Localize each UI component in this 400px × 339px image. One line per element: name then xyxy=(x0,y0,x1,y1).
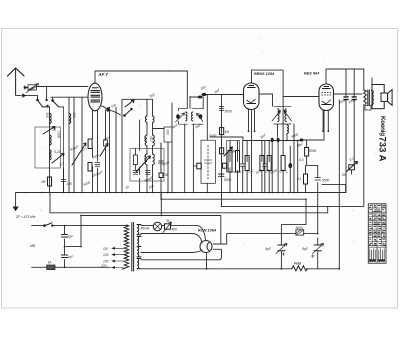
svg-text:5000: 5000 xyxy=(224,178,231,182)
capacitor C10 xyxy=(219,107,223,111)
svg-text:100: 100 xyxy=(67,182,73,186)
antenna input wire xyxy=(16,95,38,99)
trimmer feed line xyxy=(25,87,89,100)
resistor R14 xyxy=(267,156,271,171)
svg-text:5000: 5000 xyxy=(309,149,316,153)
wire x278.1 xyxy=(277,140,279,193)
band switch S1b xyxy=(47,100,59,107)
tube3 anode xyxy=(334,93,363,95)
IF1 top feed xyxy=(190,97,203,109)
IF transformer 1 right unit xyxy=(192,108,204,124)
tube2 filament legs xyxy=(249,110,255,131)
tube RES964 xyxy=(319,84,334,111)
IF transformer 1 left unit xyxy=(176,108,188,124)
tap arrow 220 xyxy=(109,267,124,269)
mains switch xyxy=(44,223,53,227)
grid cap curve tube1 xyxy=(102,106,121,115)
osc coil pair C left xyxy=(145,154,147,165)
wire column x74 xyxy=(73,97,75,192)
wire column x63.5 xyxy=(63,168,65,193)
osc right vertical x167 xyxy=(153,129,169,193)
osc coil pair A right xyxy=(153,116,155,122)
resistor R5 xyxy=(133,149,137,170)
speaker xyxy=(372,85,392,109)
tap arrow 150 xyxy=(112,260,124,262)
tube RENS1254 xyxy=(244,83,260,110)
capacitor C9 grid2 xyxy=(202,93,207,96)
field coil resistor xyxy=(292,266,308,271)
svg-text:5-20: 5-20 xyxy=(54,150,61,154)
tube2 cathode xyxy=(251,110,253,193)
shielded potentiometer box xyxy=(201,140,215,183)
title table xyxy=(368,204,386,263)
resistor R16 xyxy=(305,148,309,157)
resistor R13 xyxy=(260,156,264,171)
resistor R15 xyxy=(281,156,285,171)
capacitor 5000 block xyxy=(296,230,304,235)
volume arrow xyxy=(224,147,233,156)
bus D xyxy=(50,193,328,213)
RF coil L2 xyxy=(50,135,52,145)
wire x354 xyxy=(352,69,355,174)
transformer primary zigzag xyxy=(122,225,129,269)
heater line under rectifier xyxy=(141,249,222,268)
capacitor C18 on x346 xyxy=(343,96,348,100)
osc switch S2 xyxy=(124,108,133,116)
svg-text:5000: 5000 xyxy=(322,179,329,183)
mains bottom line xyxy=(32,266,109,268)
tube3 cathode chain xyxy=(303,110,324,192)
svg-text:300: 300 xyxy=(72,113,76,119)
capacitor C15b dark xyxy=(289,146,291,193)
capacitor C19 on x354 xyxy=(352,96,357,100)
tube1 filament legs xyxy=(93,111,98,193)
svg-text:AF 7: AF 7 xyxy=(98,72,109,77)
resistor R10 xyxy=(228,151,232,173)
svg-text:5000: 5000 xyxy=(225,110,232,114)
capacitor C15 dot xyxy=(277,138,280,142)
HV winding loop top xyxy=(141,234,202,244)
resistor R17 xyxy=(304,174,308,184)
wire node column g1 xyxy=(49,107,51,193)
rectifier output xyxy=(213,234,281,244)
tube3 top loop xyxy=(326,69,372,85)
bottom bus right xyxy=(141,268,339,270)
resistor R1 xyxy=(48,177,52,186)
antenna plug arrow xyxy=(22,94,26,97)
osc column x147 xyxy=(146,123,148,193)
resistor R11 xyxy=(236,151,240,173)
svg-text:5000: 5000 xyxy=(296,226,303,230)
wire x247.1 xyxy=(246,141,248,193)
wire x261.9 xyxy=(261,141,263,193)
transformer core xyxy=(132,223,134,272)
resistor R9 xyxy=(222,163,226,168)
trimmer plug arrow xyxy=(24,86,27,89)
output transformer coil xyxy=(372,91,374,105)
tone arrow xyxy=(347,162,358,172)
wires layer xyxy=(16,69,372,269)
osc coil pair A left xyxy=(145,116,147,122)
resistor R7 xyxy=(220,128,224,135)
mains top line xyxy=(32,225,127,227)
bus C xyxy=(222,95,364,207)
osc coil pair B left xyxy=(145,135,147,146)
capacitor 1uF lower xyxy=(62,255,68,258)
svg-text:Feld: Feld xyxy=(294,262,302,266)
svg-text:0,1: 0,1 xyxy=(297,177,302,181)
wire column x109.5 xyxy=(109,107,111,193)
svg-text:1M: 1M xyxy=(41,180,46,184)
trimmer arrow T4 xyxy=(100,144,108,157)
wire column x69 xyxy=(68,97,70,192)
RF coil L1 xyxy=(50,113,52,123)
B+ vertical x318 xyxy=(317,165,319,233)
IF1 verticals xyxy=(185,125,194,193)
tube3 filament legs xyxy=(323,110,328,131)
table text marks xyxy=(369,205,385,262)
electrolytic cap 2 xyxy=(311,244,323,258)
osc column x152.5 xyxy=(152,99,154,192)
svg-text:010: 010 xyxy=(143,156,147,162)
dial lamp xyxy=(153,222,161,230)
osc coil pair B right xyxy=(153,135,155,146)
oscillator top wire xyxy=(122,99,153,192)
svg-text:MB: MB xyxy=(30,244,36,248)
capacitor C3 grid cap blob xyxy=(106,107,109,111)
capacitor C4 xyxy=(159,143,164,173)
rheostat xyxy=(163,222,172,233)
antenna coupling trimmer xyxy=(26,84,39,93)
svg-text:1A: 1A xyxy=(48,261,52,265)
svg-text:000: 000 xyxy=(166,130,170,136)
B+ line to filter xyxy=(281,233,317,235)
wire column x116 xyxy=(115,108,117,193)
resistor R2 xyxy=(88,139,92,149)
secondary winding bottom xyxy=(137,259,141,269)
svg-text:150: 150 xyxy=(103,259,109,263)
resistor R4 xyxy=(159,173,163,178)
capacitor C2 xyxy=(95,163,100,167)
svg-text:110: 110 xyxy=(103,247,108,251)
HV winding loop bottom xyxy=(141,250,202,253)
right verticals from speaker xyxy=(345,69,347,193)
grid line tube2 xyxy=(202,94,244,96)
lamp line to rectifier xyxy=(141,226,206,241)
secondary winding mid HV xyxy=(137,237,141,257)
capacitor C6 xyxy=(133,171,138,175)
resistor R1b xyxy=(104,140,108,146)
capacitor C1 xyxy=(61,107,66,193)
wire x272.2 xyxy=(271,140,273,193)
capacitor C13 xyxy=(263,164,268,166)
trimmer arrow T1 xyxy=(43,127,55,135)
field coil wire x339.3 xyxy=(338,100,340,269)
mid columns xyxy=(229,141,231,193)
resistor R3 xyxy=(88,163,92,172)
electrolytic cap 1 xyxy=(276,244,287,256)
svg-text:50: 50 xyxy=(136,169,140,173)
svg-text:RGN 1064: RGN 1064 xyxy=(198,229,217,233)
osc column x139.6 xyxy=(139,120,141,193)
mains branch to bus E xyxy=(65,216,82,247)
svg-text:010: 010 xyxy=(143,136,147,142)
IF transformer 2 right unit xyxy=(283,106,292,124)
svg-text:50: 50 xyxy=(53,128,57,132)
band switch S1a xyxy=(37,99,50,107)
svg-text:0,5: 0,5 xyxy=(299,158,304,162)
svg-text:50: 50 xyxy=(228,167,232,171)
fuse xyxy=(47,265,55,270)
rotated coil labels xyxy=(45,113,170,162)
grid line tube3 xyxy=(283,96,319,98)
tap arrow 125 xyxy=(112,254,124,256)
resistor R6 attached xyxy=(193,163,201,169)
svg-text:450: 450 xyxy=(172,228,178,232)
svg-text:30: 30 xyxy=(342,173,346,177)
osc coil pair C right xyxy=(153,154,155,165)
ground symbol xyxy=(15,193,17,207)
IF2 lower coil drop xyxy=(278,124,295,193)
capacitor C11 xyxy=(219,174,225,176)
svg-text:220: 220 xyxy=(100,264,107,268)
svg-text:ZF = 473 kHz: ZF = 473 kHz xyxy=(15,215,36,219)
volume pot box 2 xyxy=(227,141,240,173)
rectifier tube RGN1064 xyxy=(200,241,212,253)
coil L4 on x69 xyxy=(69,113,71,123)
tube1 anode loop to IF1 xyxy=(95,71,187,108)
IF transformer 2 left unit xyxy=(272,106,283,124)
trimmer arrow T3 xyxy=(72,143,86,165)
output resistor zigzag xyxy=(364,90,367,105)
svg-text:300: 300 xyxy=(45,113,49,119)
svg-text:1M: 1M xyxy=(225,130,230,134)
output transformer core xyxy=(368,90,370,105)
svg-text:010: 010 xyxy=(149,136,153,142)
capacitor C8 top of IF1 xyxy=(198,96,202,99)
ground bus A xyxy=(16,192,346,194)
detector line y140 xyxy=(210,137,302,141)
trimmer arrow T6 xyxy=(125,100,134,107)
filter cap verticals xyxy=(281,199,306,269)
capacitor C12 xyxy=(240,164,245,166)
svg-text:Koenig: Koenig xyxy=(379,116,386,136)
capacitor C17 xyxy=(315,178,320,181)
svg-text:0,5M: 0,5M xyxy=(228,150,236,154)
osc box outline xyxy=(130,149,164,182)
tone box xyxy=(349,165,355,170)
wire x269.2 xyxy=(268,141,270,193)
column x161 bus B feed xyxy=(160,143,162,200)
wire x363.8 xyxy=(363,69,365,206)
capacitor C7 xyxy=(146,171,151,175)
tube2 anode to IF2 xyxy=(259,94,273,106)
IF2 lower coil xyxy=(287,125,288,133)
vertical text Koenig 733 A xyxy=(377,116,388,162)
speaker stub box xyxy=(365,106,371,111)
value labels xyxy=(30,85,356,268)
tube2 box loop xyxy=(252,70,284,192)
trimmer arrow T5 xyxy=(136,156,151,172)
column x297.7 xyxy=(297,140,299,193)
wire x242.7 xyxy=(242,141,244,193)
wire to RF coils xyxy=(51,97,88,107)
secondary winding top xyxy=(137,225,141,235)
wire column x105.5 xyxy=(105,110,107,193)
antenna xyxy=(8,68,25,95)
svg-text:40mA: 40mA xyxy=(141,227,150,231)
RF coil L3 xyxy=(50,150,52,160)
tap arrow 110 xyxy=(112,247,124,249)
svg-text:5000: 5000 xyxy=(209,134,216,138)
svg-text:125: 125 xyxy=(103,253,109,257)
svg-text:100: 100 xyxy=(163,173,169,177)
column x207.3 detector xyxy=(206,95,208,193)
svg-text:RENS 1254: RENS 1254 xyxy=(254,72,275,76)
bus B xyxy=(161,193,306,216)
svg-text:1000: 1000 xyxy=(57,131,61,138)
filter cap 2 vertical xyxy=(317,238,319,269)
wire column x82 xyxy=(81,97,83,192)
capacitor C16 cathode3 xyxy=(300,139,304,142)
capacitor 1uF upper xyxy=(62,235,68,238)
resistor R12 xyxy=(245,156,249,171)
capacitor C14 dot xyxy=(271,138,274,142)
column x172 xyxy=(171,103,173,193)
tube AF7 xyxy=(88,83,102,111)
svg-text:30: 30 xyxy=(166,219,170,223)
svg-text:733 A: 733 A xyxy=(377,137,388,162)
resistor R8 xyxy=(220,148,224,154)
svg-text:μμF: μμF xyxy=(296,143,304,147)
wire x237.5 xyxy=(237,141,239,193)
wire x264.8 xyxy=(264,141,266,193)
mains cap column xyxy=(64,226,66,268)
coil box outline xyxy=(35,127,61,168)
trimmer arrow T2 xyxy=(52,154,64,164)
bus E to rectifier xyxy=(81,216,221,245)
